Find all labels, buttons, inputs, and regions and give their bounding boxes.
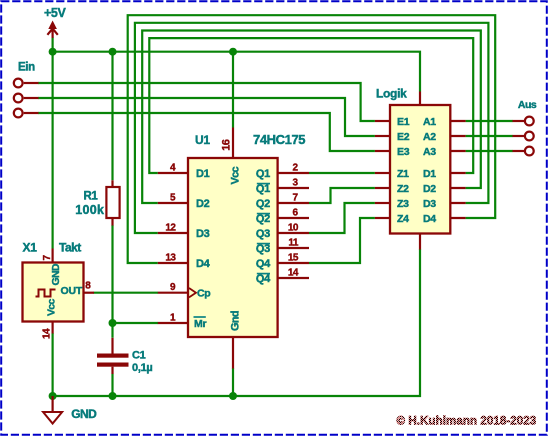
- U1 pin 3 Q1bar: [256, 177, 309, 195]
- svg-text:© H.Kuhlmann 2018-2023: © H.Kuhlmann 2018-2023: [397, 416, 537, 428]
- Logik pin A1: [423, 116, 466, 128]
- U1 pin 15 Q4: [256, 252, 309, 270]
- Logik pin D4: [423, 213, 466, 225]
- wire +5V to U1 Vcc: [232, 52, 234, 128]
- svg-text:Z1: Z1: [397, 168, 409, 180]
- U1 pin 13 D4: [158, 253, 211, 271]
- wire Logik D1 feedback to U1 D1: [149, 38, 473, 173]
- Logik pin D1: [423, 168, 466, 180]
- U1 pin 2 Q1: [256, 162, 309, 180]
- power +5V: [44, 6, 66, 38]
- svg-text:Cp: Cp: [197, 288, 210, 300]
- svg-text:3: 3: [292, 177, 298, 188]
- svg-text:1: 1: [170, 313, 176, 324]
- capacitor C1: [97, 338, 152, 374]
- svg-text:9: 9: [170, 282, 176, 293]
- node +5V/R1: [109, 48, 117, 56]
- svg-text:GND: GND: [50, 263, 62, 285]
- wire +5V to R1: [111, 52, 113, 181]
- U1 pin 7 Q2: [256, 192, 309, 210]
- svg-text:Q2: Q2: [256, 198, 270, 210]
- svg-text:74HC175: 74HC175: [253, 132, 305, 147]
- U1 pin 14 Q4bar: [256, 267, 309, 285]
- wire Logik A3 to Aus3: [466, 150, 513, 152]
- connector Ein pin 3: [14, 109, 39, 118]
- oscillator X1: [23, 241, 95, 339]
- connector Aus pin 2: [513, 132, 534, 141]
- wire Logik D2 feedback to U1 D2: [142, 31, 481, 204]
- U1 pin 9 Cp clock: [158, 282, 211, 300]
- node +5V/X1: [49, 48, 57, 56]
- Logik pin E1: [375, 116, 410, 128]
- connector Aus pin 1: [513, 117, 534, 126]
- svg-text:Aus: Aus: [518, 99, 537, 111]
- svg-text:16: 16: [221, 139, 233, 151]
- wire X1 pin14 to GND: [51, 333, 53, 396]
- wire Ein2 to Logik E2: [38, 98, 375, 136]
- svg-text:12: 12: [165, 223, 176, 234]
- svg-text:U1: U1: [195, 133, 210, 147]
- wire Logik D4 feedback to U1 D4: [128, 15, 496, 263]
- connector Aus pin 3: [513, 147, 534, 156]
- wire R1 to Mr node: [111, 225, 113, 338]
- svg-text:Q1: Q1: [256, 168, 270, 180]
- svg-text:D4: D4: [196, 258, 211, 270]
- svg-text:6: 6: [292, 207, 298, 218]
- svg-text:A2: A2: [423, 131, 436, 143]
- Logik pin Z2: [375, 183, 409, 195]
- ground: [43, 396, 97, 424]
- wire Logik D3 feedback to U1 D3: [135, 23, 489, 233]
- svg-text:11: 11: [288, 237, 299, 248]
- wire +5V to X1 pin7: [51, 52, 53, 249]
- svg-text:15: 15: [288, 252, 299, 263]
- svg-text:Mr: Mr: [194, 318, 206, 330]
- wire Logik A2 to Aus2: [466, 135, 513, 137]
- svg-text:D2: D2: [196, 198, 210, 210]
- svg-text:D1: D1: [196, 168, 210, 180]
- wire Ein1 to Logik E1: [38, 83, 375, 121]
- svg-text:E1: E1: [397, 116, 410, 128]
- svg-text:Q4: Q4: [256, 273, 271, 285]
- svg-text:Z3: Z3: [397, 198, 409, 210]
- wire U1 Q4 to Logik Z4: [309, 218, 375, 263]
- wire Mr node to U1 Mr: [113, 322, 159, 324]
- svg-text:Vcc: Vcc: [230, 166, 242, 184]
- node GND/U1: [229, 392, 237, 400]
- node GND/X1: [49, 392, 57, 400]
- svg-text:+5V: +5V: [44, 6, 66, 20]
- svg-text:Logik: Logik: [376, 86, 407, 100]
- wire +5V rail: [53, 38, 420, 92]
- U1 pin 5 D2: [158, 193, 210, 211]
- wire C1 to GND: [111, 374, 113, 396]
- svg-text:D2: D2: [423, 183, 436, 195]
- U1 pin 11 Q3bar: [256, 237, 309, 255]
- svg-text:Z2: Z2: [397, 183, 409, 195]
- wire GND rail: [53, 249, 420, 396]
- Logik pin E2: [375, 131, 410, 143]
- svg-text:E3: E3: [397, 146, 410, 158]
- wire U1 Q1 to Logik Z1: [309, 172, 375, 174]
- svg-text:Takt: Takt: [59, 241, 81, 255]
- label Aus: [518, 99, 537, 111]
- svg-text:OUT: OUT: [61, 285, 83, 297]
- copyright watermark: [397, 416, 537, 428]
- svg-text:0,1µ: 0,1µ: [132, 362, 152, 374]
- svg-text:X1: X1: [23, 241, 38, 255]
- Logik pin E3: [375, 146, 410, 158]
- node +5V/U1: [229, 48, 237, 56]
- op-amp U1 74HC175: [188, 128, 305, 369]
- wire Ein3 to Logik E3: [38, 113, 375, 151]
- connector Ein pin 2: [14, 94, 39, 103]
- svg-text:7: 7: [42, 255, 53, 261]
- U1 pin 10 Q3: [256, 222, 309, 240]
- wire U1 Q3 to Logik Z3: [309, 203, 375, 233]
- wire Logik A1 to Aus1: [466, 120, 513, 122]
- svg-text:7: 7: [292, 192, 298, 203]
- logic block Logik: [376, 86, 450, 249]
- svg-text:2: 2: [292, 162, 298, 173]
- Logik pin Z3: [375, 198, 409, 210]
- svg-text:Z4: Z4: [397, 213, 409, 225]
- svg-text:Q3: Q3: [256, 243, 270, 255]
- label Ein: [18, 62, 35, 74]
- svg-text:14: 14: [288, 267, 299, 278]
- Logik pin Z1: [375, 168, 409, 180]
- node GND/C1: [109, 392, 117, 400]
- svg-text:13: 13: [165, 253, 176, 264]
- Logik pin D2: [423, 183, 466, 195]
- svg-text:D3: D3: [196, 228, 210, 240]
- svg-text:8: 8: [85, 281, 91, 292]
- U1 pin 6 Q2bar: [256, 207, 309, 225]
- U1 pin 12 D3: [158, 223, 210, 241]
- svg-text:A3: A3: [423, 146, 436, 158]
- svg-text:GND: GND: [71, 407, 97, 421]
- connector Ein pin 1: [14, 79, 39, 88]
- Logik pin A2: [423, 131, 466, 143]
- wire X1 OUT to U1 Cp: [94, 292, 159, 294]
- svg-text:D1: D1: [423, 168, 436, 180]
- U1 pin 4 D1: [158, 163, 210, 181]
- svg-text:E2: E2: [397, 131, 410, 143]
- svg-text:Gnd: Gnd: [230, 311, 242, 331]
- svg-text:14: 14: [41, 328, 52, 339]
- svg-text:Q3: Q3: [256, 228, 270, 240]
- svg-text:4: 4: [170, 163, 176, 174]
- svg-text:5: 5: [170, 193, 176, 204]
- svg-text:D3: D3: [423, 198, 436, 210]
- svg-text:Q1: Q1: [256, 183, 270, 195]
- Logik pin D3: [423, 198, 466, 210]
- svg-text:D4: D4: [423, 213, 436, 225]
- svg-text:C1: C1: [132, 349, 146, 361]
- Logik pin A3: [423, 146, 466, 158]
- node R1/C1/Mr: [109, 319, 117, 327]
- wire U1 Gnd to GND: [232, 368, 234, 396]
- wire U1 Q2 to Logik Z2: [309, 188, 375, 203]
- svg-text:10: 10: [288, 222, 299, 233]
- svg-text:R1: R1: [84, 191, 99, 203]
- svg-text:Q4: Q4: [256, 258, 271, 270]
- Logik pin Z4: [375, 213, 409, 225]
- resistor R1: [75, 180, 119, 225]
- svg-text:Vcc: Vcc: [46, 299, 58, 316]
- U1 pin 1 Mr: [158, 313, 207, 331]
- svg-text:Ein: Ein: [18, 62, 35, 74]
- svg-text:100k: 100k: [75, 203, 104, 217]
- svg-text:A1: A1: [423, 116, 436, 128]
- svg-text:Q2: Q2: [256, 213, 270, 225]
